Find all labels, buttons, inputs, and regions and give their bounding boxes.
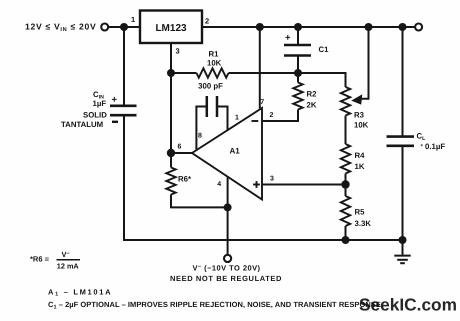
svg-text:3.3K: 3.3K [355,219,372,228]
svg-text:2: 2 [205,17,209,26]
resistor R1 [197,68,229,77]
wire op-amp pin 3 to divider node [262,184,346,186]
capacitor CIN plates [110,106,137,115]
svg-text:TANTALUM: TANTALUM [61,120,103,129]
svg-text:1: 1 [235,115,239,122]
svg-text:3: 3 [176,47,180,56]
wire rail to CL top [402,27,404,137]
wire C1 bottom plate to node [297,56,299,74]
input terminal VIN [101,24,108,31]
wire input terminal to LM123 pin 1 [109,26,140,28]
regulator U1 LM123 box [140,11,202,44]
wire R2 bottom to op-amp pin 2 [262,110,298,122]
wire node 6 to R6 [170,153,172,168]
wire input node down to CIN [123,27,125,106]
node C1 bottom junction [294,69,302,77]
svg-text:1K: 1K [355,162,365,171]
wire rail to C1 top plate [297,27,299,45]
wire LM123 pin 3 down [170,43,172,73]
wire op-amp pin 4 down [227,177,229,208]
wire node to R5 top [345,185,347,197]
resistor R6 [166,168,175,195]
R3 wiper arrowhead [351,94,362,104]
svg-text:R1: R1 [209,50,220,59]
stray mark before CL value [421,144,423,146]
node R5 ground junction [342,236,350,244]
svg-text:12V ≤ VIN ≤ 20V: 12V ≤ VIN ≤ 20V [25,21,96,33]
resistor R5 [341,196,350,226]
ground rail wire [124,239,403,241]
svg-text:0.1µF: 0.1µF [425,142,445,151]
wire R4 bottom to node [345,174,347,185]
wire LM123 pin 2 to output rail [202,26,414,28]
svg-text:R2: R2 [307,90,318,99]
svg-text:R6*: R6* [178,175,192,184]
wire op-amp output to node 6 [171,152,192,154]
svg-text:1µF: 1µF [93,99,107,108]
node 6 junction [167,149,175,157]
wire C1 node to R3 top [298,73,346,87]
wire pin 7 up to rail [259,27,261,109]
svg-text:NEED NOT BE REGULATED: NEED NOT BE REGULATED [170,274,282,283]
svg-text:A1 – LM101A: A1 – LM101A [48,287,112,297]
wire R5 bottom to ground rail [345,226,347,240]
wire node to V- terminal [227,207,229,254]
wire R3 wiper from rail [358,27,369,99]
capacitor CL plates [387,137,415,146]
svg-text:+: + [112,95,118,106]
svg-text:*R6 =: *R6 = [30,255,50,264]
svg-text:300 pF: 300 pF [198,82,223,91]
node input junction [120,23,128,31]
node R4 R5 junction [341,180,349,188]
wire R1 to C1 node [229,72,299,74]
svg-text:R3: R3 [354,111,365,120]
svg-text:7: 7 [260,99,264,106]
wire 300pF left plate to op-amp pin 8 [196,107,206,151]
formula fraction bar [57,259,81,261]
svg-text:+: + [285,33,291,44]
V- terminal [224,255,231,262]
resistor R3 [341,87,350,116]
svg-text:SOLID: SOLID [83,110,107,119]
svg-text:C1: C1 [319,45,330,54]
op-amp A1 triangle [192,108,262,200]
node pin7 rail junction [256,23,264,31]
svg-text:2K: 2K [307,101,317,110]
svg-text:10K: 10K [354,121,369,130]
node CL rail junction [399,23,407,31]
node R3 wiper rail junction [365,23,373,31]
svg-text:A1: A1 [230,147,241,156]
resistor R2 [293,83,302,110]
wire R1 node down to node 6 [170,73,172,153]
wire R3 bottom to R4 top [345,116,347,145]
capacitor C2 300pF plates [207,96,217,117]
wire 300pF right plate to op-amp pin 1 [217,107,228,131]
CIN minus sign [112,121,118,123]
svg-text:SeekIC.com: SeekIC.com [359,295,457,315]
wire CIN bottom to ground rail [124,115,129,240]
wire node to R2 top [297,73,299,83]
svg-text:V−: V− [62,250,70,259]
svg-text:V− (−10V TO 20V): V− (−10V TO 20V) [192,263,260,272]
svg-text:3: 3 [270,176,274,183]
node C1 rail junction [294,23,302,31]
node R1 left junction [167,69,175,77]
svg-text:6: 6 [178,144,182,151]
svg-text:R4: R4 [355,151,366,160]
wire R1 node to resistor [171,72,197,74]
wire CL bottom to ground rail [402,146,404,240]
svg-text:2: 2 [270,112,274,119]
svg-text:4: 4 [217,181,221,188]
ground symbol [394,240,410,263]
node CL ground junction [399,236,407,244]
svg-text:10K: 10K [207,59,222,68]
node pin4 junction [224,203,232,211]
svg-text:R5: R5 [355,208,366,217]
resistor R4 [341,144,350,174]
svg-text:12 mA: 12 mA [57,261,80,270]
svg-text:1: 1 [131,15,135,24]
svg-text:8: 8 [198,133,202,140]
op-amp plus input sign [253,181,260,188]
svg-text:LM123: LM123 [155,23,187,34]
svg-text:CL: CL [417,132,427,142]
svg-text:C1 – 2µF OPTIONAL – IMPROVES: C1 – 2µF OPTIONAL – IMPROVES RIPPLE REJE… [48,300,381,310]
wire R6 bottom to pin4 node [171,195,228,208]
op-amp minus input sign [252,120,259,122]
capacitor C1 plates [284,45,311,56]
output terminal [415,24,422,31]
